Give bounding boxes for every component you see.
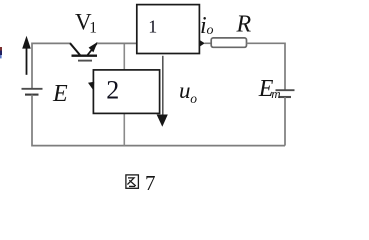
caption: hanzi TU (figure) drawn as strokes	[126, 175, 138, 188]
svg-text:1: 1	[148, 17, 157, 37]
uo arrow (downward)	[157, 56, 168, 127]
io arrowhead out of box 1	[200, 40, 205, 46]
wire: vertical tap from top wire down to bottom wire (behind box 2)	[123, 43, 125, 145]
emitter arrowhead	[89, 42, 98, 52]
wire: resistor to top-right corner and down to battery Em	[247, 43, 286, 90]
svg-text:R: R	[236, 12, 252, 38]
svg-text:7: 7	[145, 171, 156, 195]
base underline stub	[78, 60, 92, 62]
wire: below Em to bottom-right corner	[284, 97, 286, 146]
svg-text:1: 1	[89, 19, 97, 36]
resistor R	[211, 38, 246, 47]
emitter diagonal	[87, 43, 97, 56]
wire: top-left corner from battery up and right to transistor	[32, 43, 71, 89]
svg-text:E: E	[52, 81, 68, 107]
base bar	[72, 55, 98, 57]
collector diagonal	[70, 43, 81, 55]
clipped character at left edge	[0, 47, 2, 58]
current arrow (upward) beside left wire	[22, 36, 31, 75]
svg-text:o: o	[207, 23, 214, 38]
svg-text:m: m	[271, 86, 280, 101]
box 2 (sampling network)	[93, 70, 159, 114]
svg-text:o: o	[190, 91, 197, 106]
arrowhead on box 2 left edge	[88, 82, 94, 91]
battery E left plate pair	[22, 89, 43, 95]
svg-text:2: 2	[106, 75, 119, 104]
wire: emitter to box 1	[97, 42, 137, 44]
box 1 (comparison amplifier)	[137, 5, 200, 54]
transistor V1	[70, 42, 98, 61]
wire: io arrow to resistor	[205, 42, 212, 44]
battery Em plate pair	[276, 90, 295, 97]
wire: left vertical below battery to bottom-left corner	[32, 95, 285, 146]
svg-text:u: u	[179, 78, 191, 103]
